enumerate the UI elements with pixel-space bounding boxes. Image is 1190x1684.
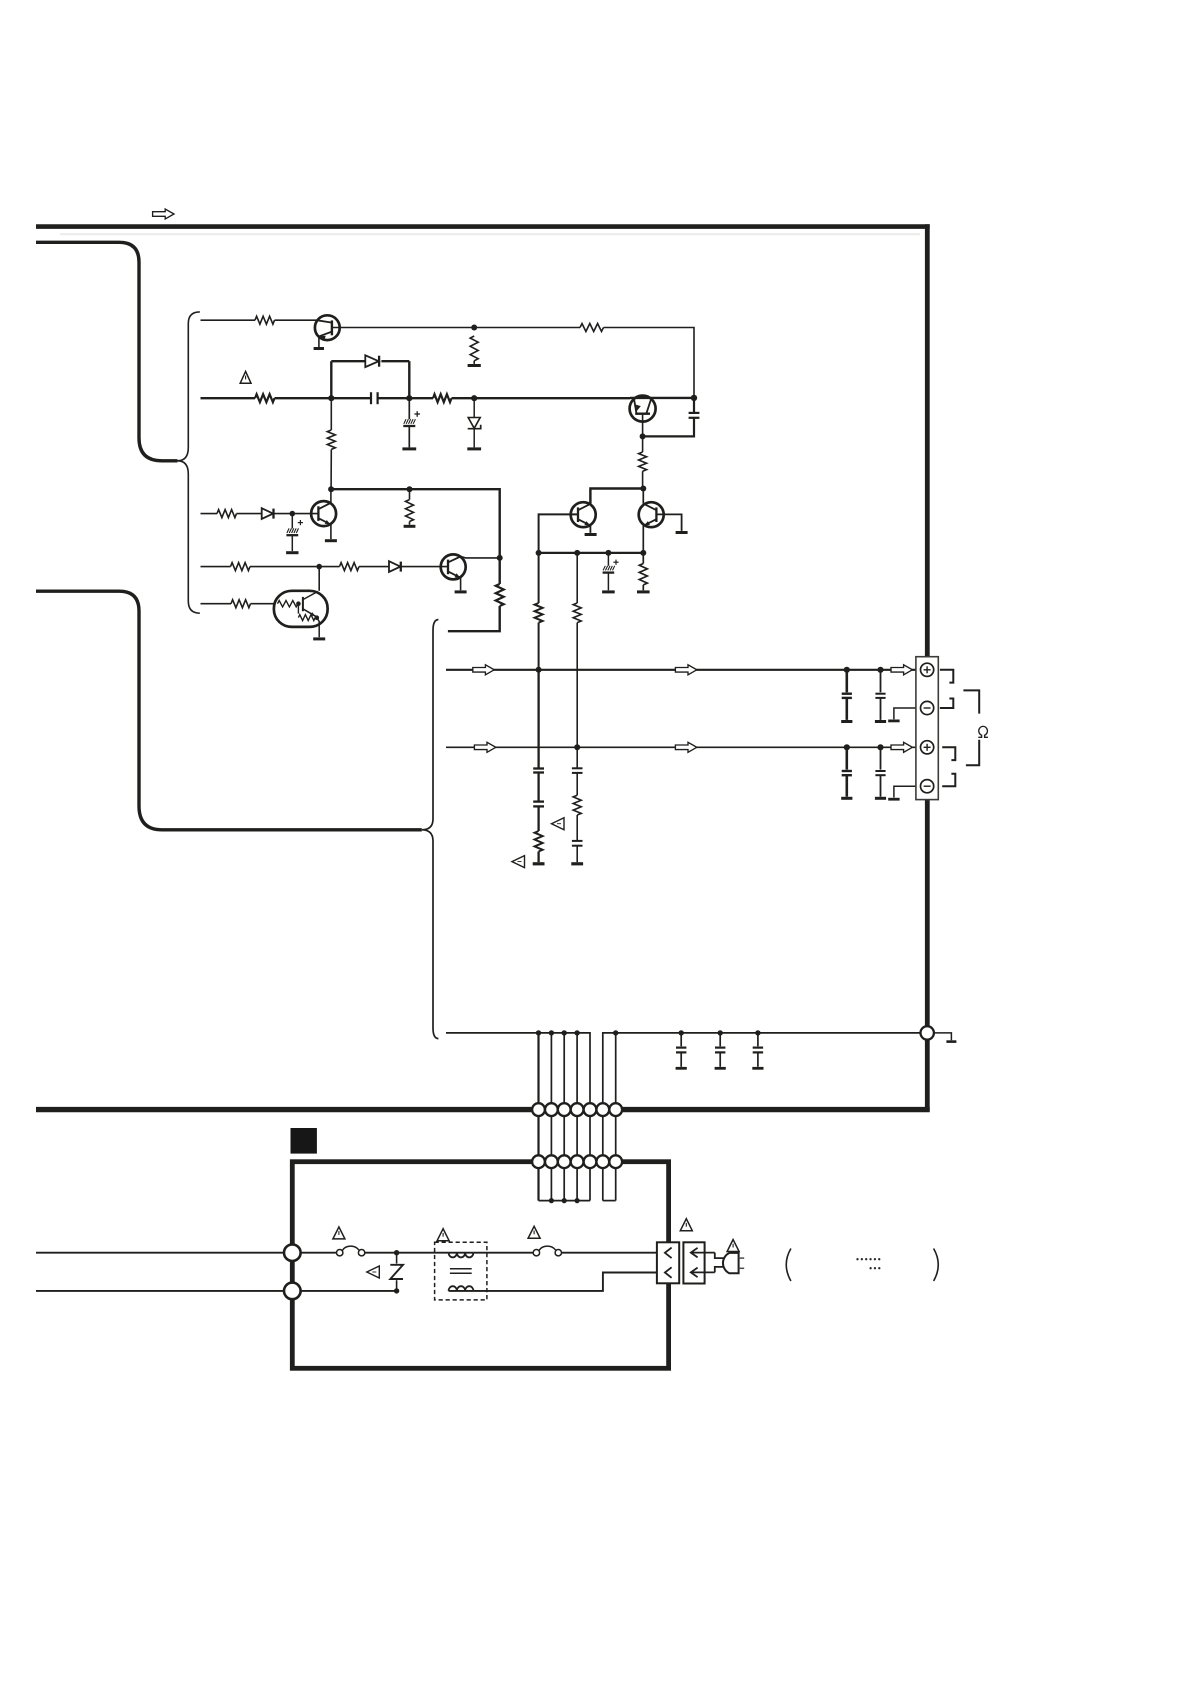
wire main PCB right border xyxy=(925,224,930,1111)
node B2 junction xyxy=(406,395,412,401)
wire R1 to Q1 xyxy=(275,319,317,321)
label ohm symbol xyxy=(978,726,988,737)
wire Q3 collector to node G2 xyxy=(461,557,500,558)
label dotted text row 1 xyxy=(856,1258,858,1260)
hazard marker triangle near R19 ground xyxy=(512,856,525,868)
ground Q3 emitter xyxy=(455,590,467,593)
ground Q7 emitter xyxy=(313,637,325,640)
wire R10 stubs xyxy=(642,553,644,564)
wire link bus bar lines 6-7 xyxy=(603,1200,616,1202)
pad AC line L entry xyxy=(284,1244,301,1261)
pad bottom border 1 xyxy=(532,1103,545,1116)
wire Q4 collector up xyxy=(589,490,591,504)
wire D2 to node C1 xyxy=(274,513,293,515)
node L junction xyxy=(394,1250,399,1255)
wire minus terminal 1 to ground xyxy=(894,708,921,719)
ground minus terminal 2 xyxy=(888,798,899,801)
wire C1 to node B2 xyxy=(378,397,409,399)
wire link bus bar lines 1-5 xyxy=(539,1200,591,1202)
node bus2 x847 junction xyxy=(844,744,850,750)
resistor R18 xyxy=(496,584,504,606)
wire node A1 to R5 xyxy=(474,327,580,329)
wire R12 down to bus 2 xyxy=(576,623,578,748)
resistor R12 xyxy=(573,603,581,623)
wire AC line N from left edge xyxy=(36,1290,284,1292)
node B1 junction xyxy=(328,395,334,401)
node B6 junction xyxy=(328,486,334,492)
wire bus 2 (second output rail) xyxy=(446,746,916,748)
label + polarity of C4 xyxy=(298,522,303,524)
ground below R10 xyxy=(637,590,650,593)
node flow arrow bus2 b xyxy=(675,742,696,752)
diode D3 xyxy=(389,561,400,572)
transistor Q5 xyxy=(639,502,664,527)
node flow arrow bus2 a xyxy=(474,742,495,752)
wire R19 to ground xyxy=(537,852,539,863)
wire pad to chassis ground xyxy=(934,1033,952,1040)
pad bottom border 6 xyxy=(596,1103,609,1116)
wire diode branch top left xyxy=(331,360,365,362)
pad bottom box top edge 3 xyxy=(558,1155,571,1168)
resistor R20 xyxy=(573,795,581,815)
label + polarity of C5 xyxy=(613,561,618,563)
wire row H from brace to R15 xyxy=(201,603,232,605)
node bracket pair 1 between CN1-1 and CN1-2 xyxy=(940,670,953,683)
wire row C from brace to R9 xyxy=(201,513,218,515)
wire bus 1 (B+ output rail) xyxy=(446,669,916,671)
connector CN1 terminal strip body xyxy=(916,657,938,800)
wire R11 to bus 1 xyxy=(538,623,540,670)
capacitor C5 electrolytic xyxy=(607,553,609,566)
wire interboard link line 4 xyxy=(576,1033,578,1201)
warning triangle above F1 xyxy=(333,1227,345,1239)
wire F1 down to bus1 with resistor R11 xyxy=(538,553,540,603)
wire vertical B1 to B2 with resistor R7 segment a xyxy=(330,398,332,430)
wire Q2 collector to row B2 xyxy=(330,489,332,503)
resistor R14 xyxy=(340,563,360,571)
node flow arrow bus1 c xyxy=(891,665,912,675)
node link bar junction 3 xyxy=(562,1198,567,1203)
ground Q2 emitter xyxy=(325,539,337,542)
node signal-flow arrow above top border xyxy=(153,209,174,219)
wire AC line L from left edge xyxy=(36,1252,337,1254)
resistor R17 internal base-emitter xyxy=(297,604,299,614)
wire node G2 down through R18 xyxy=(499,558,501,584)
pad bottom box top edge 7 xyxy=(609,1155,622,1168)
wire interboard link line 2 xyxy=(550,1033,552,1201)
fuse F2 xyxy=(533,1250,539,1256)
pad bottom border 5 xyxy=(584,1103,597,1116)
node ground bus junction 1 xyxy=(536,1030,541,1035)
capacitor C2 electrolytic xyxy=(408,398,410,419)
node G1 junction xyxy=(316,564,322,570)
wire interboard link line 5 xyxy=(589,1105,591,1201)
ground below C10b xyxy=(841,797,852,800)
node F1 junction xyxy=(536,550,542,556)
node curly brace grouping rows (brace 1) xyxy=(178,312,200,613)
wire filter N to connector CN2 xyxy=(473,1273,665,1291)
wire minus terminal 2 to ground xyxy=(894,786,921,797)
wire node G1 down to DTR oval xyxy=(318,567,320,591)
capacitor C21 to ground xyxy=(719,1033,721,1046)
pad bottom border 7 xyxy=(609,1103,622,1116)
node ground bus junction 4 xyxy=(574,1030,579,1035)
pin CN1-2 minus terminal xyxy=(921,701,934,714)
wire node B2 to R4 xyxy=(409,397,433,399)
resistor R6 xyxy=(639,452,647,471)
pad bottom border 2 xyxy=(545,1103,558,1116)
connector plug header body xyxy=(683,1242,704,1283)
pad bottom box top edge 2 xyxy=(545,1155,558,1168)
wire R8 to ground xyxy=(409,522,411,525)
wire F2 down crossing bus1 with resistor R12 xyxy=(576,553,578,603)
wire node L to line filter xyxy=(397,1252,449,1254)
pin CN2-1 chevron xyxy=(665,1248,672,1259)
node F4 junction xyxy=(640,550,646,556)
ground below R2 xyxy=(468,364,481,367)
transistor Q4 xyxy=(571,502,596,527)
pin CN1-4 minus terminal xyxy=(921,780,934,793)
pad bottom box top edge 4 xyxy=(571,1155,584,1168)
node bus2 x880 junction xyxy=(877,744,883,750)
wire interboard link line 6 xyxy=(602,1105,604,1201)
pad bottom box top edge 6 xyxy=(596,1155,609,1168)
wire R5 to corner xyxy=(604,328,695,396)
ground below C11b xyxy=(875,797,886,800)
node pad on right border for ground bus xyxy=(921,1026,934,1039)
label parenthesis left xyxy=(786,1249,791,1282)
node link bar junction 4 xyxy=(575,1198,580,1203)
wire Q5 collector up to node B8 xyxy=(642,489,644,504)
pin plug arrow 2 xyxy=(691,1271,715,1273)
diode D2 xyxy=(262,508,273,519)
pin CN2-2 chevron xyxy=(665,1267,672,1278)
label dotted text row 2 xyxy=(869,1267,871,1269)
wire R4 to node B3 xyxy=(452,397,475,399)
wire ground bus segment 2 xyxy=(603,1033,921,1109)
capacitor C9 xyxy=(572,840,583,842)
warning triangle near row B xyxy=(240,371,251,383)
wire diode branch right leg xyxy=(408,361,410,398)
inductor L1a winding xyxy=(449,1252,474,1254)
ground Q4 emitter xyxy=(585,533,597,536)
ground below C11a xyxy=(875,720,886,723)
capacitor C10b on bus2 x=846.8 xyxy=(845,747,848,769)
wire node G1 to R14 xyxy=(319,566,339,568)
node A1 junction xyxy=(471,325,477,331)
warning triangle above CN2 xyxy=(680,1219,692,1231)
node cap junction on ground bus 2 xyxy=(718,1030,723,1035)
wire R18 to corner left xyxy=(448,606,500,631)
pad bottom border 4 xyxy=(571,1103,584,1116)
node B5 junction xyxy=(640,433,646,439)
resistor R15 xyxy=(231,600,251,608)
wire C9 to ground xyxy=(576,846,578,863)
wire row G from brace to R13 xyxy=(201,566,231,568)
wire Q2 emitter to ground xyxy=(330,525,332,540)
wire row A from brace to R1 xyxy=(201,319,256,321)
node curly brace grouping lower section (brace 2) xyxy=(422,620,439,1039)
wire node C1 to Q2 base xyxy=(292,513,318,515)
pad bottom box top edge 5 xyxy=(584,1155,597,1168)
pin plug arrow 1 xyxy=(691,1252,715,1254)
wire collector bus right segment xyxy=(590,489,643,504)
node F2 junction xyxy=(574,550,580,556)
transistor Q6 xyxy=(630,396,656,422)
pad bottom box top edge 1 xyxy=(532,1155,545,1168)
node B8 junction xyxy=(640,486,646,492)
wire filter to F2 xyxy=(473,1252,533,1254)
node bracket with ohm-meter symbol xyxy=(963,690,979,713)
warning triangle above F2 xyxy=(528,1226,540,1238)
node B3 junction xyxy=(471,395,477,401)
transistor Q7 internal symbol xyxy=(302,597,304,611)
resistor R16 internal base xyxy=(278,601,298,607)
wire Q4 base left and down xyxy=(539,514,578,553)
pad AC line N entry xyxy=(284,1283,301,1300)
pin CN1-3 plus terminal xyxy=(921,741,934,754)
node B4 junction xyxy=(691,395,697,401)
wire pad N to junction xyxy=(301,1290,397,1292)
wire main PCB bottom border xyxy=(36,1107,930,1112)
ground below C5 xyxy=(602,590,615,593)
node Q7 base junction xyxy=(296,601,301,606)
node C1 junction xyxy=(290,511,296,517)
node link bar junction 2 xyxy=(549,1198,554,1203)
wire interboard link line 1 xyxy=(537,1033,539,1201)
wire R7 to node B2row xyxy=(330,449,332,489)
wire node B5 to R6 xyxy=(642,436,644,452)
resistor R11 xyxy=(535,603,543,623)
wire R3 to node B1 xyxy=(275,397,332,399)
warning triangle at line filter xyxy=(437,1229,449,1241)
node cap junction on ground bus 3 xyxy=(755,1030,760,1035)
wire R6 to node C4j xyxy=(642,471,644,488)
resistor R4 xyxy=(433,394,452,402)
line filter L1 dashed box xyxy=(435,1242,487,1300)
wire row F xyxy=(539,552,644,554)
capacitor C10a on bus1 x=846.8 xyxy=(845,670,848,693)
wire bus1 junction down (crosses bus2) xyxy=(537,670,539,769)
wire F2 to connector CN2 xyxy=(561,1252,665,1254)
wire node B3 to Q6 xyxy=(474,397,630,399)
varistor Z1 xyxy=(396,1253,398,1264)
node G2 junction xyxy=(497,555,503,561)
capacitor C3 xyxy=(693,398,695,412)
node ground bus junction 7 xyxy=(613,1030,618,1035)
transistor Q3 xyxy=(441,554,466,579)
inductor L1b winding xyxy=(449,1290,474,1292)
ground below C9 xyxy=(571,862,583,865)
resistor R1 xyxy=(255,316,275,324)
wire C7 to R19 xyxy=(537,806,539,831)
resistor R7 xyxy=(327,430,335,449)
zener diode ZD1 xyxy=(473,398,475,417)
wire R13 to node G1 xyxy=(250,566,319,568)
resistor R19 xyxy=(535,831,543,852)
node bus1 x847 junction xyxy=(844,667,850,673)
transistor Q1 xyxy=(315,315,340,340)
wire row B from brace to R3 xyxy=(201,397,256,399)
node bus2 x577 junction xyxy=(574,744,580,750)
ground below C20 xyxy=(676,1067,687,1070)
node bracket pair 2 between CN1-3 and CN1-4 xyxy=(942,747,955,760)
wire interboard link line 7 xyxy=(615,1033,617,1201)
warning triangle above plug xyxy=(727,1240,739,1252)
ground below C4 xyxy=(286,551,298,554)
wire interboard link line 3 xyxy=(563,1033,565,1201)
ground below C10a xyxy=(841,720,852,723)
pin CN1-1 plus terminal xyxy=(921,663,934,676)
ground Q1 emitter xyxy=(314,347,324,350)
node flow arrow bus1 a xyxy=(473,665,494,675)
ground below ZD1 xyxy=(467,447,481,450)
wire R8 top stub xyxy=(409,489,411,499)
ground chassis right xyxy=(946,1040,956,1043)
ground minus terminal 1 xyxy=(888,720,899,723)
wire diode branch left leg xyxy=(330,361,332,398)
label parenthesis right xyxy=(934,1249,939,1282)
inductor L1 core xyxy=(450,1268,472,1270)
wire R2 to ground xyxy=(473,361,475,364)
node flow arrow bus2 c xyxy=(891,742,912,752)
node N junction xyxy=(394,1288,399,1293)
node ground bus junction 3 xyxy=(562,1030,567,1035)
ground below R19 xyxy=(533,862,545,865)
capacitor C20 to ground xyxy=(680,1033,682,1046)
wire C8 to R20 xyxy=(576,773,578,795)
ground Q5 base xyxy=(676,531,688,534)
node ground bus junction 2 xyxy=(549,1030,554,1035)
resistor R9 xyxy=(217,510,237,518)
wire Q3 emitter to ground xyxy=(460,578,462,591)
transistor Q2 xyxy=(311,501,336,526)
capacitor C22 to ground xyxy=(757,1033,759,1046)
resistor R8 xyxy=(406,500,414,522)
wire node B1 to capacitor C1 xyxy=(331,397,370,399)
capacitor C8 xyxy=(572,767,583,769)
wire diode branch top right xyxy=(381,360,409,362)
capacitor C6 xyxy=(533,767,544,769)
pad bottom border 3 xyxy=(558,1103,571,1116)
wire R9 to D2 xyxy=(237,513,262,515)
capacitor C1 xyxy=(370,392,372,404)
wire bottom PCB border box xyxy=(292,1162,668,1369)
capacitor C11a on bus1 x=880.5 xyxy=(880,670,882,693)
wire R14 to D3 xyxy=(359,566,389,568)
AC plug P1 xyxy=(715,1253,724,1259)
wire F1 to node L1j xyxy=(365,1252,397,1254)
ground below R8 xyxy=(404,525,416,528)
diode D1 xyxy=(365,355,378,367)
wire D3 to Q3 base xyxy=(401,566,448,568)
ground below C21 xyxy=(715,1067,726,1070)
node flow arrow bus1 b xyxy=(675,665,696,675)
capacitor C7 xyxy=(533,800,544,802)
ground below C22 xyxy=(752,1067,763,1070)
wire bus2 junction down xyxy=(576,747,578,768)
wire C6 to C7 xyxy=(537,773,539,802)
transistor Q7 digital (oval package) xyxy=(274,591,328,627)
label + polarity of C2 xyxy=(414,413,420,415)
wire Q1 base to node A1 xyxy=(332,327,474,329)
wire Q4 emitter to ground xyxy=(589,526,591,533)
node B7 junction xyxy=(407,486,413,492)
ground below C2 xyxy=(402,447,416,450)
node bus1 x880 junction xyxy=(877,667,883,673)
wire R15 to oval xyxy=(251,603,276,605)
resistor R10 xyxy=(639,564,647,585)
connector CN2 socket body xyxy=(657,1242,679,1283)
wire Q5 base right to ground xyxy=(656,514,681,531)
capacitor C11b on bus2 x=880.5 xyxy=(880,747,882,769)
wire main PCB top border xyxy=(36,224,930,229)
hazard marker triangle near R20 xyxy=(552,818,565,830)
wire thick feed from left edge to brace 1 xyxy=(36,242,178,460)
node F3 junction xyxy=(605,550,611,556)
node scan artifact under top border xyxy=(60,233,920,235)
resistor R2 xyxy=(470,336,478,361)
wire Q7 emitter out of oval xyxy=(317,618,319,638)
wire R20 to C9 xyxy=(576,815,578,841)
resistor R13 xyxy=(231,563,251,571)
fuse F1 xyxy=(337,1250,343,1256)
wire thick feed from left edge to brace 2 xyxy=(36,591,422,830)
node Q7 emitter junction xyxy=(315,615,320,620)
node cap junction on ground bus 1 xyxy=(679,1030,684,1035)
capacitor C4 electrolytic xyxy=(291,514,293,529)
node bus1 x538 junction xyxy=(536,667,542,673)
resistor R5 xyxy=(580,324,604,332)
resistor R3 xyxy=(255,394,275,402)
node black index square xyxy=(291,1128,317,1154)
hazard marker triangle near Z1 xyxy=(367,1266,380,1278)
wire ground bus segment 1 xyxy=(446,1033,590,1109)
wire row B2 from node B1 branch xyxy=(331,489,500,557)
wire through Q6 top to node B4 xyxy=(630,397,694,399)
wire Q5 emitter down to row F xyxy=(642,526,644,553)
